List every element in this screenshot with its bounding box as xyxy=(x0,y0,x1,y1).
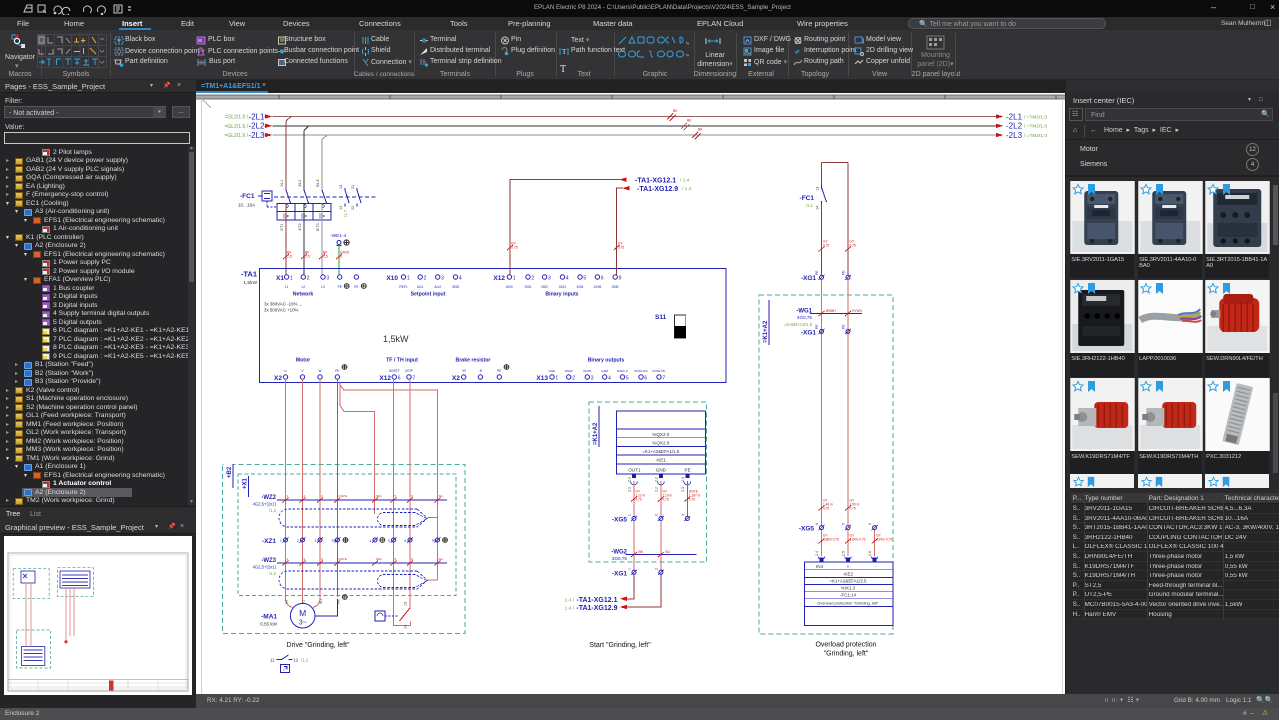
svg-text:Motor: Motor xyxy=(296,358,310,364)
svg-text:TF / TH input: TF / TH input xyxy=(386,358,418,364)
svg-text:0,75: 0,75 xyxy=(850,507,856,511)
svg-text:PE: PE xyxy=(842,270,846,275)
RIGHT PANEL xyxy=(1066,93,1279,694)
svg-text:VOTF: VOTF xyxy=(405,369,414,373)
svg-text:6: 6 xyxy=(644,376,647,382)
terminal group TA1-X2 Brake resistor xyxy=(452,358,509,383)
svg-text:-TA1-XG12.1: -TA1-XG12.1 xyxy=(576,597,617,604)
shield wire to WZ3 xyxy=(340,385,375,514)
svg-text:-2L2: -2L2 xyxy=(248,122,265,131)
svg-text:-TA1-XG12.1: -TA1-XG12.1 xyxy=(635,177,676,184)
svg-text:L2: L2 xyxy=(302,285,306,289)
svg-text:Start "Grinding, left": Start "Grinding, left" xyxy=(589,642,651,649)
svg-text:2: 2 xyxy=(654,514,658,516)
wire TF sensor 2 xyxy=(409,379,411,608)
svg-text:1,07m 0,75: 1,07m 0,75 xyxy=(876,538,892,542)
svg-text:1: 1 xyxy=(407,276,410,282)
svg-text:PE: PE xyxy=(354,285,358,289)
svg-text:0,55 kW: 0,55 kW xyxy=(260,622,278,627)
terminal strip XG5 start xyxy=(612,514,690,524)
wire X12:1 to interruption point TA1-XG12.1 xyxy=(507,177,690,274)
svg-text:DO03: DO03 xyxy=(583,369,591,373)
svg-text:BK: BK xyxy=(673,109,678,113)
circuit breaker FC1 xyxy=(258,188,377,220)
sheet frame top ruler xyxy=(196,95,1066,99)
svg-text:2,5: 2,5 xyxy=(323,255,328,259)
svg-text:W1: W1 xyxy=(319,599,323,604)
svg-text:AI12: AI12 xyxy=(434,285,441,289)
terminal group TA1-X13 Binary outputs xyxy=(536,358,666,383)
svg-text:5: 5 xyxy=(842,523,846,525)
shield wire to WZ2 xyxy=(340,383,438,581)
STATUS STRIP xyxy=(196,694,1279,708)
svg-text:=GL2/1.9 /: =GL2/1.9 / xyxy=(225,124,249,130)
svg-text:L3: L3 xyxy=(321,285,325,289)
svg-text:6: 6 xyxy=(340,255,342,259)
TAB BAR xyxy=(196,80,1066,93)
interruption point TA1-XG12.9 (start side) xyxy=(565,575,661,613)
Macros group xyxy=(10,33,28,51)
svg-text:GND: GND xyxy=(452,285,460,289)
wire L1 drop xyxy=(286,117,291,191)
svg-text:-: - xyxy=(875,564,877,569)
svg-text:1: 1 xyxy=(290,276,293,282)
wires XG5 to XG1 start xyxy=(634,521,661,570)
terminal strip XG5 overload xyxy=(799,523,878,533)
wire V phase TA1 to motor xyxy=(302,379,304,603)
svg-text:GND: GND xyxy=(549,369,557,373)
PLC input card KE2 xyxy=(804,551,893,626)
wire L2 drop xyxy=(304,126,309,190)
interruption point TA1-XG12.1 (start side) xyxy=(565,575,634,604)
svg-text:=GL2/1.9 /: =GL2/1.9 / xyxy=(225,133,249,139)
svg-text:GND: GND xyxy=(612,285,620,289)
svg-text:GNYE: GNYE xyxy=(338,557,347,561)
svg-text:PE: PE xyxy=(338,285,342,289)
svg-text:2,5: 2,5 xyxy=(287,255,292,259)
svg-text:/1.2: /1.2 xyxy=(269,571,277,576)
svg-text:22: 22 xyxy=(351,206,355,210)
svg-text:0,75: 0,75 xyxy=(636,498,642,502)
svg-text:1.4 /: 1.4 / xyxy=(565,597,575,603)
wire PE green to motor area xyxy=(336,379,338,597)
svg-text:=GL2/1.9 /: =GL2/1.9 / xyxy=(225,115,249,121)
wire L3 drop xyxy=(322,135,327,190)
wire KE1 OUT1 to XG5 xyxy=(631,481,646,516)
svg-text:9: 9 xyxy=(619,276,622,282)
svg-text:Binary outputs: Binary outputs xyxy=(588,358,625,364)
wire L3 to TA1-X1:3 xyxy=(319,203,328,275)
svg-text:5: 5 xyxy=(626,376,629,382)
svg-text:6: 6 xyxy=(868,523,872,525)
svg-text:V1: V1 xyxy=(302,600,306,604)
svg-text:4G0,75: 4G0,75 xyxy=(797,315,813,320)
svg-text:DO02: DO02 xyxy=(565,369,573,373)
svg-text:-WZ3: -WZ3 xyxy=(261,558,276,564)
svg-text:1: 1 xyxy=(280,539,282,543)
svg-text:4/T2: 4/T2 xyxy=(298,223,302,231)
svg-text:3: 3 xyxy=(326,276,329,282)
switch S11 xyxy=(655,314,686,338)
svg-text:GYWH: GYWH xyxy=(852,309,863,313)
svg-text:2,5: 2,5 xyxy=(305,255,310,259)
svg-text:1.4 /: 1.4 / xyxy=(565,606,575,612)
Symbols grid xyxy=(41,71,111,78)
wire X12:9 to interruption point TA1-XG12.9 xyxy=(614,186,692,275)
svg-text:1: 1 xyxy=(555,376,558,382)
cable WG2 xyxy=(611,550,696,562)
svg-text:2,1: 2,1 xyxy=(628,477,632,482)
svg-text:4: 4 xyxy=(566,276,569,282)
svg-text:-2L3: -2L3 xyxy=(248,131,265,140)
svg-text:BK: BK xyxy=(687,118,692,122)
svg-text:OUT1: OUT1 xyxy=(628,468,641,473)
svg-text:=GAB2+A2/1.6: =GAB2+A2/1.6 xyxy=(784,322,813,327)
enclosure box +B2 xyxy=(223,462,465,633)
svg-text:PE: PE xyxy=(432,539,436,543)
svg-text:2,2: 2,2 xyxy=(654,477,658,482)
wire motor PE blue xyxy=(315,599,337,616)
svg-text:=K1+A2&EFA1/2.5: =K1+A2&EFA1/2.5 xyxy=(830,579,867,584)
svg-text:PE: PE xyxy=(685,468,691,473)
svg-text:-XG1: -XG1 xyxy=(801,275,817,282)
svg-text:DO01-NC: DO01-NC xyxy=(652,369,666,373)
svg-text:+R: +R xyxy=(462,369,467,373)
wire U phase TA1 to motor xyxy=(286,379,293,607)
svg-text:-WG2: -WG2 xyxy=(611,550,627,556)
svg-text:0,75: 0,75 xyxy=(689,498,695,502)
svg-text:-XG1: -XG1 xyxy=(612,570,628,577)
svg-text:/ =TM2/1.0: / =TM2/1.0 xyxy=(1024,124,1047,130)
LEFT PANEL xyxy=(0,80,196,708)
svg-text:2: 2 xyxy=(654,568,658,570)
svg-text:V: V xyxy=(301,369,304,373)
node -2L1 power rail xyxy=(225,109,1048,121)
motor MA1 xyxy=(260,599,340,628)
wire KE1 GND to XG5 xyxy=(658,481,673,516)
svg-text:2: 2 xyxy=(572,376,575,382)
terminal group TA1-X2 Motor xyxy=(274,358,347,383)
svg-text:3/L2: 3/L2 xyxy=(298,180,302,187)
svg-text:L1: L1 xyxy=(285,285,289,289)
svg-text:3x 380VAC -10% ...: 3x 380VAC -10% ... xyxy=(264,302,302,307)
terminal group TA1-X12 Binary inputs xyxy=(493,275,621,298)
svg-text:-FC1: -FC1 xyxy=(800,195,815,202)
svg-text:2: 2 xyxy=(297,539,299,543)
svg-text:21: 21 xyxy=(351,185,355,189)
contact FC1 13/14 aux circuit xyxy=(800,162,856,275)
svg-text:Binary inputs: Binary inputs xyxy=(545,292,578,298)
svg-text:2,3: 2,3 xyxy=(681,477,685,482)
svg-text:7: 7 xyxy=(662,376,665,382)
svg-text:BK: BK xyxy=(698,128,703,132)
svg-text:%QX2.0: %QX2.0 xyxy=(652,432,670,437)
svg-text:1,5kW: 1,5kW xyxy=(383,334,409,344)
cable WZ3 xyxy=(253,557,447,576)
svg-text:PE: PE xyxy=(815,324,819,329)
svg-text:4: 4 xyxy=(608,376,611,382)
svg-text:W: W xyxy=(318,369,321,373)
terminal strip XG1 upper row xyxy=(801,270,851,282)
contact 11/12 manual xyxy=(270,655,309,673)
svg-text:1.1: 1.1 xyxy=(628,487,632,492)
svg-text:/ 1.4: / 1.4 xyxy=(682,186,692,192)
svg-text:13: 13 xyxy=(404,602,408,606)
svg-text:PE: PE xyxy=(815,270,819,275)
svg-text:-R: -R xyxy=(479,369,483,373)
svg-text:/1.2: /1.2 xyxy=(269,508,277,513)
CANVAS xyxy=(196,93,1066,694)
terminal group TA1-X1 Network xyxy=(276,275,366,298)
svg-text:U: U xyxy=(284,369,287,373)
svg-text:3: 3 xyxy=(548,276,551,282)
svg-text:0,75: 0,75 xyxy=(511,246,518,250)
svg-text:-XG5: -XG5 xyxy=(612,517,628,524)
thermal contact TF motor xyxy=(375,602,410,629)
svg-text:-WE1-4: -WE1-4 xyxy=(330,233,347,239)
svg-text:2: 2 xyxy=(424,276,427,282)
svg-text:1: 1 xyxy=(628,514,632,516)
svg-text:SH1: SH1 xyxy=(376,557,382,561)
MENU BAR xyxy=(0,17,1279,30)
node -2L2 power rail xyxy=(225,118,1048,130)
svg-text:Network: Network xyxy=(293,292,314,298)
svg-text:X12: X12 xyxy=(493,275,505,282)
svg-text:X12: X12 xyxy=(379,375,391,382)
svg-text:%IX1.3: %IX1.3 xyxy=(841,585,856,590)
svg-text:/1.2: /1.2 xyxy=(301,658,309,663)
svg-text:2: 2 xyxy=(307,276,310,282)
svg-text:X13: X13 xyxy=(536,375,548,382)
svg-text:4: 4 xyxy=(459,276,462,282)
svg-text:5: 5 xyxy=(583,276,586,282)
svg-text:-TA1-XG12.9: -TA1-XG12.9 xyxy=(576,605,617,612)
svg-text:Drive "Grinding, left": Drive "Grinding, left" xyxy=(287,642,350,649)
svg-text:=K1+A2: =K1+A2 xyxy=(593,422,599,445)
svg-text:+B2: +B2 xyxy=(227,466,233,478)
svg-text:0,75: 0,75 xyxy=(850,244,856,248)
svg-text:-XZ1: -XZ1 xyxy=(262,538,276,545)
wire PE green to TA1 xyxy=(336,245,350,275)
terminal group TA1-X12 TF/TH input xyxy=(379,358,418,383)
earth point -WE1-4 xyxy=(330,233,349,246)
svg-text:PE: PE xyxy=(842,324,846,329)
enclosure box K1+A2 start section xyxy=(589,402,707,562)
svg-text:4G2,5+(2x1): 4G2,5+(2x1) xyxy=(253,565,277,570)
svg-text:14: 14 xyxy=(339,206,343,210)
cable WG1 xyxy=(784,309,863,328)
svg-text:/1.7: /1.7 xyxy=(343,209,348,217)
svg-text:DI02: DI02 xyxy=(541,285,548,289)
device TA1 frequency inverter box xyxy=(260,268,727,382)
svg-text:GND: GND xyxy=(656,468,667,473)
terminal strip XG1 lower row xyxy=(801,324,851,337)
svg-text:BNWH: BNWH xyxy=(826,309,836,313)
svg-text:Setpoint input: Setpoint input xyxy=(411,292,446,298)
svg-text:3: 3 xyxy=(441,276,444,282)
svg-text:3G0,75: 3G0,75 xyxy=(612,556,628,561)
TITLE BAR xyxy=(0,0,1279,17)
svg-text:X1: X1 xyxy=(276,275,284,282)
cable WZ2 shield xyxy=(279,509,428,527)
svg-text:14: 14 xyxy=(404,625,408,629)
svg-text:DO01-C: DO01-C xyxy=(617,369,629,373)
svg-text:/ =TM2/1.0: / =TM2/1.0 xyxy=(1024,133,1047,139)
svg-text:/ 1.4: / 1.4 xyxy=(680,178,690,184)
svg-text:1,5kW: 1,5kW xyxy=(243,280,257,286)
node -2L3 power rail xyxy=(225,128,1048,140)
svg-text:"Grinding, left": "Grinding, left" xyxy=(824,651,869,658)
svg-text:1,84m 0,75: 1,84m 0,75 xyxy=(850,538,866,542)
wire KE1 PE green to XG5 xyxy=(684,481,700,516)
svg-text:2,4: 2,4 xyxy=(815,551,819,556)
svg-text:6: 6 xyxy=(601,276,604,282)
svg-text:DI04: DI04 xyxy=(577,285,584,289)
svg-text:1,86m 0,75: 1,86m 0,75 xyxy=(823,538,839,542)
svg-text:/1.1: /1.1 xyxy=(806,203,814,208)
svg-text:DO01-NO: DO01-NO xyxy=(634,369,648,373)
svg-text:2: 2 xyxy=(531,276,534,282)
svg-text:PE: PE xyxy=(335,369,339,373)
svg-text:X2: X2 xyxy=(452,375,460,382)
svg-text:0,75: 0,75 xyxy=(618,246,625,250)
svg-text:-MA1: -MA1 xyxy=(261,614,277,621)
svg-text:24VB: 24VB xyxy=(593,285,601,289)
svg-text:6/T3: 6/T3 xyxy=(316,223,320,231)
BOTTOM BAR xyxy=(0,708,1279,720)
svg-text:AI11: AI11 xyxy=(417,285,424,289)
RIBBON xyxy=(0,30,1279,80)
svg-text:-FC1:14: -FC1:14 xyxy=(840,593,856,598)
svg-text:6: 6 xyxy=(398,376,401,382)
svg-text:X10: X10 xyxy=(386,275,398,282)
svg-text:/ =TM2/1.0: / =TM2/1.0 xyxy=(1024,114,1047,120)
svg-text:0,75: 0,75 xyxy=(823,507,829,511)
svg-text:4G2,5+(2x1): 4G2,5+(2x1) xyxy=(253,502,277,507)
enclosure box +X1 xyxy=(238,474,456,596)
svg-text:=K1+A2: =K1+A2 xyxy=(763,320,769,343)
svg-text:-WZ2: -WZ2 xyxy=(261,495,276,501)
svg-text:Overload protection: Overload protection xyxy=(815,642,876,649)
svg-text:DI05TF: DI05TF xyxy=(389,369,400,373)
svg-text:14: 14 xyxy=(816,206,820,210)
terminal strip XG1 start xyxy=(612,568,664,577)
svg-text:S11: S11 xyxy=(655,314,667,321)
svg-text:11: 11 xyxy=(270,658,275,663)
svg-text:3~: 3~ xyxy=(299,620,307,627)
svg-text:13: 13 xyxy=(816,187,820,191)
svg-text:PE: PE xyxy=(497,369,501,373)
svg-text:0,75: 0,75 xyxy=(823,244,829,248)
svg-text:PE: PE xyxy=(332,539,336,543)
svg-text:10...16A: 10...16A xyxy=(238,203,256,208)
svg-text:DI00: DI00 xyxy=(506,285,513,289)
svg-text:7: 7 xyxy=(412,376,415,382)
svg-text:-2L1: -2L1 xyxy=(1006,112,1023,121)
svg-text:1: 1 xyxy=(628,568,632,570)
cable WZ2 xyxy=(253,494,447,513)
wires XG1 to XG5 overload xyxy=(819,280,860,526)
svg-text:T: T xyxy=(562,48,567,56)
svg-text:-TA1-XG12.9: -TA1-XG12.9 xyxy=(637,186,678,193)
svg-text:-XG1: -XG1 xyxy=(801,330,817,337)
svg-text:1.3: 1.3 xyxy=(681,487,685,492)
earth shield clamp motor xyxy=(342,595,347,600)
svg-text:-XG5: -XG5 xyxy=(799,526,815,533)
svg-text:+: + xyxy=(847,564,850,569)
svg-text:-KE1: -KE1 xyxy=(656,458,667,463)
svg-text:GNYE: GNYE xyxy=(338,494,347,498)
svg-text:+X1: +X1 xyxy=(243,477,249,489)
wire L2 to TA1-X1:2 xyxy=(301,203,310,275)
svg-text:3x 500VAC +10%: 3x 500VAC +10% xyxy=(264,308,299,313)
svg-text:BU: BU xyxy=(666,550,671,554)
terminal strip XZ1 xyxy=(262,537,447,545)
svg-text:DI01: DI01 xyxy=(525,285,532,289)
svg-text:4: 4 xyxy=(370,539,372,543)
wires XG5 to KE2 pins xyxy=(819,530,893,556)
svg-text:SH: SH xyxy=(439,494,443,498)
svg-text:0,75: 0,75 xyxy=(662,498,668,502)
svg-text:2/T1: 2/T1 xyxy=(280,223,284,231)
svg-text:6: 6 xyxy=(405,539,407,543)
svg-text:5/L3: 5/L3 xyxy=(316,180,320,187)
cable WZ3 shield xyxy=(279,571,427,589)
PLC output card KE1 xyxy=(616,411,705,492)
svg-text:2,6: 2,6 xyxy=(868,551,872,556)
svg-text:SH1: SH1 xyxy=(376,494,382,498)
svg-text:M: M xyxy=(299,608,306,618)
svg-text:1/L1: 1/L1 xyxy=(280,180,284,187)
svg-text:2,5: 2,5 xyxy=(842,551,846,556)
svg-text:%QX2.0: %QX2.0 xyxy=(652,440,670,445)
svg-text:Overload protection "Grinding,: Overload protection "Grinding, left" xyxy=(817,600,879,605)
svg-text:SH: SH xyxy=(439,557,443,561)
svg-text:BN: BN xyxy=(639,550,644,554)
svg-text:U1: U1 xyxy=(285,600,289,604)
FC1 pin labels xyxy=(280,180,355,231)
wire L1 to TA1-X1:1 xyxy=(283,203,292,275)
svg-text:13: 13 xyxy=(339,185,343,189)
svg-text:5: 5 xyxy=(388,539,390,543)
svg-text:4: 4 xyxy=(815,523,819,525)
wire TF sensor 1 xyxy=(394,379,411,626)
svg-text:-2L3: -2L3 xyxy=(1006,131,1023,140)
svg-text:1: 1 xyxy=(513,276,516,282)
svg-text:DI03: DI03 xyxy=(559,285,566,289)
svg-text:-TA1: -TA1 xyxy=(241,270,257,279)
svg-text:3: 3 xyxy=(315,539,317,543)
svg-text:X2: X2 xyxy=(274,375,282,382)
svg-text:12: 12 xyxy=(294,658,299,663)
svg-text:-FC1: -FC1 xyxy=(240,193,255,200)
svg-text:=K1+A2&EFA1/1.5: =K1+A2&EFA1/1.5 xyxy=(642,449,679,454)
svg-text:REF1: REF1 xyxy=(399,285,407,289)
svg-text:3: 3 xyxy=(591,376,594,382)
svg-text:-2L1: -2L1 xyxy=(248,112,265,121)
svg-text:-KE2: -KE2 xyxy=(843,571,854,576)
svg-text:3: 3 xyxy=(681,514,685,516)
svg-text:1.2: 1.2 xyxy=(654,487,658,492)
wire W phase TA1 to motor xyxy=(313,379,320,607)
svg-text:GND: GND xyxy=(601,369,609,373)
svg-text:IN4: IN4 xyxy=(816,564,824,569)
terminal group TA1-X10 Setpoint input xyxy=(386,275,461,298)
enclosure box K1+A2 overload section xyxy=(759,295,893,634)
svg-text:-2L2: -2L2 xyxy=(1006,122,1023,131)
Devices xyxy=(205,71,265,78)
svg-text:Brake resistor: Brake resistor xyxy=(456,358,491,364)
